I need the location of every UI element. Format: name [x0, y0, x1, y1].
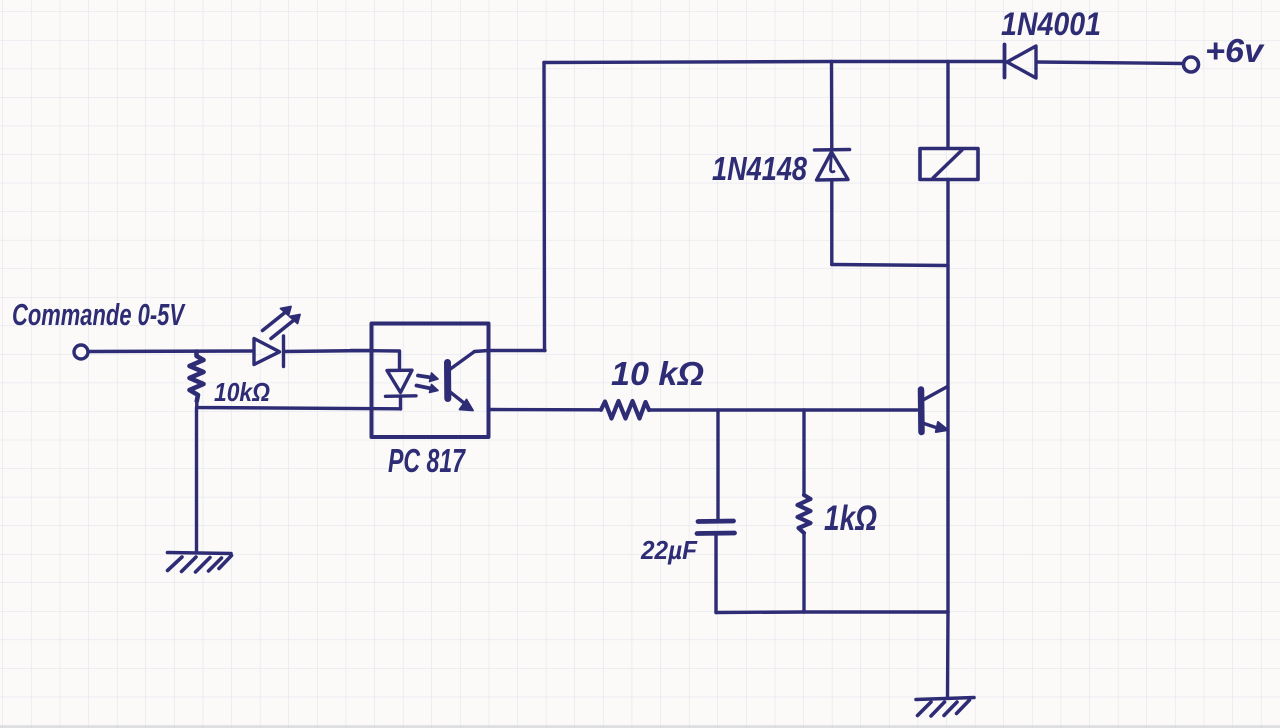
wire: R2 to transistor base: [649, 408, 917, 411]
wire: R3 bottom down: [802, 533, 805, 612]
relay K1 coil: [920, 149, 978, 180]
wire: emitter down to bottom rail: [946, 388, 949, 612]
terminal: commande input: [74, 345, 88, 359]
svg-text:+6v: +6v: [1205, 32, 1265, 69]
wire: bottom rail: [716, 610, 948, 614]
wire: collector out of optocoupler to riser: [475, 351, 546, 352]
wire: relay bottom down to collector: [946, 180, 949, 389]
optocoupler U1 PC817 body: [372, 324, 489, 438]
wire: base node down to capacitor: [716, 410, 719, 519]
resistor R1 10kΩ vertical: [190, 352, 204, 402]
svg-text:Commande 0-5V: Commande 0-5V: [12, 297, 186, 332]
wire: top rail: [544, 62, 1004, 63]
optocoupler phototransistor: [448, 352, 475, 411]
resistor R2 10kΩ horizontal: [601, 401, 649, 419]
terminal: +6V: [1184, 57, 1199, 72]
wire: optocoupler emitter to R2: [489, 408, 601, 412]
wire: diode to +6V terminal: [1037, 62, 1184, 64]
ground (right): [916, 698, 974, 717]
wire: down to right ground: [946, 612, 950, 697]
wire: LED to optocoupler: [284, 351, 371, 352]
LED D1 input diode: [254, 336, 284, 367]
resistor R3 1kΩ vertical: [798, 495, 811, 533]
transistor Q1: [921, 387, 948, 433]
svg-text:1kΩ: 1kΩ: [824, 499, 877, 538]
wire: top rail to relay: [946, 62, 949, 149]
svg-text:1N4001: 1N4001: [1001, 6, 1101, 42]
wire: vertical riser to top rail: [542, 63, 546, 351]
LED D1 emission arrows: [263, 307, 301, 339]
capacitor C1 22µF: [697, 521, 735, 534]
diode D2 1N4001: [1005, 45, 1037, 79]
svg-text:10kΩ: 10kΩ: [214, 377, 270, 407]
wire: top rail to 1N4148: [830, 62, 834, 150]
wire: 1N4148 to relay bottom: [832, 265, 948, 266]
optocoupler light arrows: [417, 373, 439, 393]
wire: input to LED: [89, 349, 253, 353]
wire: 1N4148 anode down: [830, 180, 833, 265]
scan edge shading (decorative): [0, 726, 1280, 728]
wire: base node down to R3: [802, 410, 805, 495]
optocoupler internal LED: [351, 351, 416, 410]
svg-text:22µF: 22µF: [640, 535, 698, 565]
ground (left): [168, 553, 232, 573]
svg-text:10 kΩ: 10 kΩ: [611, 355, 704, 392]
svg-text:1N4148: 1N4148: [712, 150, 808, 187]
diode D3 1N4148: [815, 150, 850, 181]
svg-text:PC 817: PC 817: [388, 442, 466, 479]
wire: down to left ground: [195, 408, 198, 553]
wire: R1 bottom to optocoupler pin 2: [197, 401, 401, 409]
wire: capacitor bottom down: [714, 534, 717, 613]
